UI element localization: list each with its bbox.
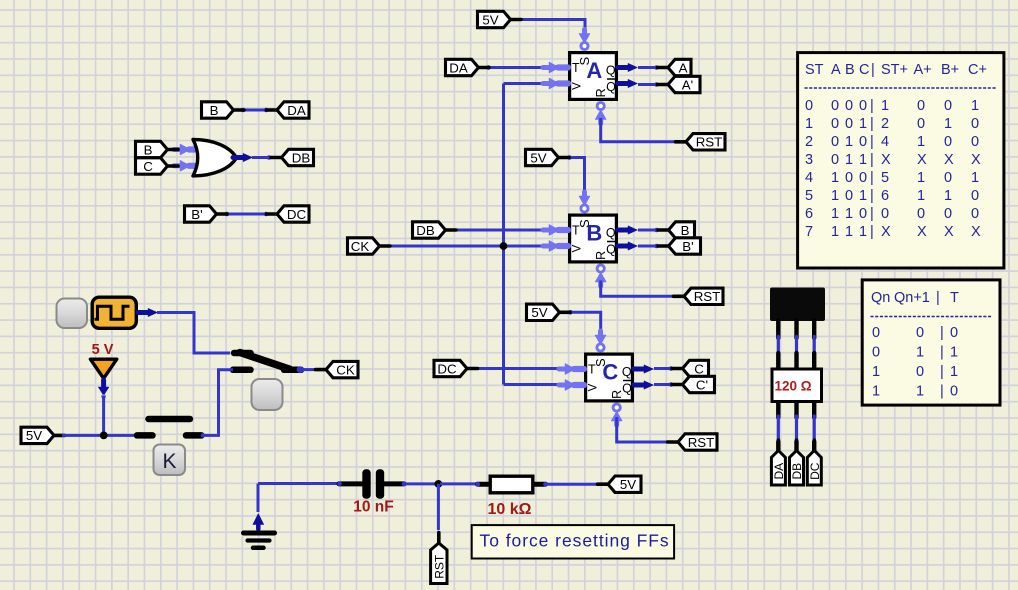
tag RST (FF B reset): [674, 288, 724, 304]
tag RST (FF A reset): [676, 134, 726, 150]
svg-text:A': A': [682, 77, 693, 92]
svg-text:|: |: [940, 364, 944, 380]
push button (SPDT): [252, 379, 283, 410]
wire B to DA: [240, 108, 268, 113]
svg-text:|: |: [870, 134, 874, 150]
tag B (input to net DA): [202, 102, 245, 118]
tag DB (FF B input): [413, 222, 457, 238]
svg-text:RST: RST: [694, 289, 721, 304]
svg-text:B: B: [586, 221, 602, 246]
wire FF C Q' to tag C': [654, 382, 673, 387]
svg-text:|: |: [940, 345, 944, 361]
clock source CLK1: [92, 297, 136, 328]
svg-text:5: 5: [881, 170, 889, 186]
svg-text:|: |: [870, 224, 874, 240]
svg-text:2: 2: [805, 134, 813, 150]
or-gate U1: [193, 140, 237, 176]
svg-text:Q: Q: [622, 382, 632, 396]
svg-text:DA: DA: [449, 60, 468, 75]
svg-text:3: 3: [805, 152, 813, 168]
svg-text:|: |: [940, 325, 944, 341]
svg-text:1: 1: [917, 134, 925, 150]
resistor pack RN1 120 ohm: [772, 353, 822, 418]
svg-text:Q: Q: [606, 64, 616, 78]
svg-text:120 Ω: 120 Ω: [774, 379, 811, 394]
switch SW1 (SPDT to CK): [233, 353, 303, 374]
svg-text:0: 0: [917, 116, 925, 132]
svg-text:V: V: [588, 383, 600, 391]
voltage source V1 5V: [90, 342, 116, 399]
svg-text:Q: Q: [606, 243, 616, 257]
svg-text:10 nF: 10 nF: [353, 499, 393, 516]
svg-text:0: 0: [950, 384, 958, 400]
svg-text:C: C: [694, 361, 704, 376]
svg-text:A: A: [831, 62, 841, 78]
svg-text:RST: RST: [688, 435, 715, 450]
svg-text:Q: Q: [606, 226, 616, 240]
svg-text:0: 0: [944, 134, 952, 150]
svg-text:X: X: [917, 152, 927, 168]
wire SPDT throw to switch K: [205, 370, 233, 436]
label K (switch K button): [154, 445, 186, 476]
svg-text:0: 0: [944, 170, 952, 186]
wire DC to FF C T input: [470, 367, 561, 370]
svg-text:1: 1: [971, 98, 979, 114]
wire 5V to FF C set: [568, 310, 601, 334]
svg-text:1: 1: [845, 206, 853, 222]
wire 5V to FF B set: [567, 155, 584, 195]
tag C (FF C Q output): [672, 360, 709, 376]
svg-text:0: 0: [859, 98, 867, 114]
svg-text:B': B': [682, 239, 693, 254]
tag DC (net label): [267, 206, 310, 222]
wire B' to DC: [225, 212, 269, 217]
svg-text:1: 1: [916, 384, 924, 400]
tag CK (clock net): [316, 361, 359, 377]
svg-text:1: 1: [805, 116, 813, 132]
svg-text:To force resetting FFs: To force resetting FFs: [480, 531, 670, 551]
svg-text:5V: 5V: [531, 305, 547, 320]
svg-text:1: 1: [944, 116, 952, 132]
wire FF B Q' to tag B': [638, 244, 659, 249]
wire junction down to RST tag: [437, 484, 440, 530]
svg-text:B: B: [845, 62, 855, 78]
svg-text:C+: C+: [968, 62, 987, 78]
wire FF A reset to RST: [601, 118, 676, 142]
svg-text:0: 0: [845, 116, 853, 132]
svg-text:4: 4: [881, 134, 889, 150]
flip-flop A (T flip-flop U2): [543, 30, 638, 124]
wire 5V to FF A set: [518, 20, 585, 34]
svg-text:RST: RST: [696, 135, 723, 150]
wire SPDT to CK tag: [301, 368, 316, 371]
tag DA (LED drive, vertical): [771, 440, 786, 485]
svg-text:CK: CK: [351, 239, 370, 254]
svg-text:X: X: [881, 152, 891, 168]
tag B (OR gate input): [136, 141, 179, 157]
svg-text:RST: RST: [432, 554, 446, 579]
svg-text:A: A: [679, 60, 688, 75]
svg-text:DB: DB: [292, 150, 311, 165]
svg-text:1: 1: [859, 152, 867, 168]
svg-text:C': C': [696, 377, 708, 392]
tag 5V (pull-up supply): [598, 476, 642, 492]
wire 5V tag to switch K: [62, 434, 136, 437]
svg-text:0: 0: [916, 364, 924, 380]
tag C (OR gate input): [136, 158, 179, 174]
svg-text:0: 0: [805, 98, 813, 114]
svg-text:1: 1: [859, 224, 867, 240]
svg-text:0: 0: [845, 188, 853, 204]
svg-text:5V: 5V: [482, 12, 498, 27]
wire resistor to 5V tag: [546, 483, 600, 486]
svg-text:C: C: [859, 62, 869, 78]
svg-text:X: X: [917, 224, 927, 240]
svg-text:6: 6: [881, 188, 889, 204]
svg-text:X: X: [971, 152, 981, 168]
svg-text:|: |: [870, 206, 874, 222]
led module LED1 (RGB led, off): [770, 288, 825, 339]
svg-text:|: |: [940, 384, 944, 400]
svg-text:0: 0: [872, 345, 880, 361]
wire junction to resistor: [440, 482, 478, 485]
svg-text:5V: 5V: [26, 428, 42, 443]
wire FF A Q to tag A: [638, 65, 659, 70]
wire LED leads upper: [778, 337, 814, 355]
tag 5V (switch K supply): [21, 427, 65, 443]
svg-text:|: |: [870, 170, 874, 186]
tag RST (reset net, vertical): [431, 533, 447, 584]
svg-text:|: |: [870, 152, 874, 168]
junction CK bus: [500, 242, 508, 250]
svg-text:0: 0: [845, 98, 853, 114]
push button (clock): [57, 299, 88, 329]
svg-text:6: 6: [805, 206, 813, 222]
svg-text:0: 0: [831, 134, 839, 150]
svg-text:1: 1: [831, 170, 839, 186]
svg-text:0: 0: [944, 206, 952, 222]
svg-text:X: X: [971, 224, 981, 240]
svg-text:C: C: [143, 159, 153, 174]
svg-text:B': B': [191, 207, 202, 222]
svg-text:0: 0: [859, 206, 867, 222]
junction V1/5V node: [100, 432, 108, 440]
flip-flop C (T flip-flop U4): [559, 331, 654, 425]
tag DA (net label): [267, 102, 310, 118]
svg-text:V: V: [572, 244, 584, 252]
tag DC (FF C input): [434, 360, 478, 376]
svg-text:1: 1: [845, 224, 853, 240]
svg-text:0: 0: [971, 134, 979, 150]
svg-text:7: 7: [805, 224, 813, 240]
resistor R1 10k: [476, 476, 548, 518]
svg-text:0: 0: [859, 134, 867, 150]
svg-text:ST: ST: [805, 62, 824, 78]
flip-flop B (T flip-flop U3): [543, 192, 638, 286]
svg-text:0: 0: [881, 206, 889, 222]
svg-text:0: 0: [917, 206, 925, 222]
svg-text:A: A: [586, 58, 602, 83]
svg-text:B+: B+: [941, 62, 959, 78]
wire V1 to node: [102, 396, 105, 435]
truth table (T flip-flop excitation): [862, 280, 1000, 405]
tag A (FF A Q output): [658, 59, 692, 75]
svg-text:Q: Q: [622, 365, 632, 379]
svg-text:C: C: [602, 360, 618, 385]
wire CK bus vertical: [502, 84, 505, 385]
truth table (state transition table): [798, 53, 1004, 268]
svg-text:Qn: Qn: [871, 290, 890, 306]
svg-text:B: B: [681, 223, 690, 238]
wire LED leads lower: [778, 416, 814, 443]
tag DA (FF A input): [446, 59, 490, 75]
tag RST (FF C reset): [668, 434, 718, 450]
svg-text:ST+: ST+: [881, 62, 908, 78]
tag B (FF B Q output): [658, 222, 695, 238]
tag DB (OR gate output): [271, 149, 314, 165]
wire FF C Q to tag C: [654, 366, 673, 371]
wire FF A Q' to tag A': [638, 82, 659, 87]
tag B' (FF B Q' output): [658, 238, 701, 254]
svg-text:Qn+1: Qn+1: [894, 290, 930, 306]
wire capacitor to junction: [404, 482, 436, 485]
tag C' (FF C Q' output): [672, 376, 715, 392]
led module pin stubs: [778, 442, 814, 451]
svg-text:5V: 5V: [620, 477, 636, 492]
svg-text:1: 1: [831, 206, 839, 222]
svg-text:0: 0: [916, 325, 924, 341]
svg-text:T: T: [950, 290, 959, 306]
svg-text:DB: DB: [790, 463, 804, 480]
svg-text:DC: DC: [437, 361, 457, 376]
svg-text:0: 0: [831, 116, 839, 132]
svg-text:1: 1: [881, 98, 889, 114]
svg-text:1: 1: [859, 116, 867, 132]
svg-text:Q: Q: [606, 80, 616, 94]
svg-text:0: 0: [859, 170, 867, 186]
svg-text:|: |: [870, 116, 874, 132]
svg-text:0: 0: [971, 206, 979, 222]
svg-text:5: 5: [805, 188, 813, 204]
svg-text:0: 0: [917, 98, 925, 114]
tag A' (FF A Q' output): [658, 76, 701, 92]
svg-text:1: 1: [859, 188, 867, 204]
svg-text:DB: DB: [416, 223, 435, 238]
svg-text:X: X: [881, 224, 891, 240]
wire DA to FF A T input: [486, 65, 545, 70]
svg-text:|: |: [871, 62, 875, 78]
svg-text:1: 1: [872, 364, 880, 380]
wire OR input C: [174, 160, 199, 171]
svg-text:A+: A+: [914, 62, 932, 78]
wire OR input B: [174, 144, 199, 155]
svg-text:|: |: [936, 290, 940, 306]
svg-text:B: B: [210, 103, 219, 118]
svg-text:1: 1: [917, 188, 925, 204]
svg-text:|: |: [870, 188, 874, 204]
svg-text:0: 0: [872, 325, 880, 341]
svg-text:0: 0: [845, 170, 853, 186]
wire CK to FF B V input: [390, 245, 545, 248]
tag CK (FF B clock input): [348, 238, 391, 254]
wire DB to FF B T input: [456, 229, 545, 232]
svg-text:1: 1: [872, 384, 880, 400]
svg-text:B: B: [144, 142, 153, 157]
svg-text:5V: 5V: [530, 150, 546, 165]
svg-text:K: K: [162, 450, 176, 473]
svg-text:1: 1: [831, 224, 839, 240]
svg-text:X: X: [944, 224, 954, 240]
text note: To force resetting FFs: [472, 525, 674, 558]
svg-text:DC: DC: [287, 207, 307, 222]
wire FF B Q to tag B: [638, 228, 659, 233]
svg-text:|: |: [870, 98, 874, 114]
svg-text:1: 1: [845, 152, 853, 168]
wire FF C reset to RST: [617, 417, 668, 442]
svg-text:V: V: [572, 82, 584, 90]
svg-text:1: 1: [971, 170, 979, 186]
svg-text:4: 4: [805, 170, 813, 186]
wire FF B reset to RST: [601, 281, 674, 297]
capacitor C1 10nF: [337, 469, 406, 515]
wire FF A V input: [504, 82, 546, 85]
svg-text:10 kΩ: 10 kΩ: [488, 501, 532, 518]
svg-text:5 V: 5 V: [92, 342, 114, 358]
tag 5V (FF B set): [526, 149, 570, 165]
svg-text:0: 0: [950, 325, 958, 341]
svg-text:1: 1: [950, 345, 958, 361]
svg-text:1: 1: [950, 364, 958, 380]
svg-text:DA: DA: [287, 103, 306, 118]
svg-text:X: X: [944, 152, 954, 168]
switch K (push switch): [137, 419, 205, 438]
ground GND1: [244, 484, 275, 548]
svg-text:2: 2: [881, 116, 889, 132]
tag DB (LED drive, vertical): [790, 440, 805, 485]
tag DC (LED drive, vertical): [807, 440, 822, 485]
wire OR output to DB: [233, 153, 272, 161]
svg-text:DA: DA: [772, 463, 786, 480]
wire CK bus to FF C V input: [504, 383, 562, 386]
svg-text:0: 0: [831, 152, 839, 168]
svg-text:0: 0: [944, 98, 952, 114]
svg-text:1: 1: [944, 188, 952, 204]
svg-text:0: 0: [971, 116, 979, 132]
svg-text:1: 1: [916, 345, 924, 361]
svg-text:1: 1: [845, 134, 853, 150]
svg-text:CK: CK: [336, 362, 355, 377]
svg-text:1: 1: [917, 170, 925, 186]
svg-text:0: 0: [831, 98, 839, 114]
svg-text:1: 1: [831, 188, 839, 204]
wire clock to SPDT: [138, 308, 230, 353]
tag 5V (FF C set): [527, 304, 571, 320]
tag 5V (FF A set): [478, 11, 522, 27]
tag B' (input to net DC): [185, 206, 228, 222]
svg-text:DC: DC: [808, 462, 822, 480]
svg-text:0: 0: [971, 188, 979, 204]
wire ground to capacitor: [258, 482, 340, 485]
junction RST node: [435, 480, 443, 488]
